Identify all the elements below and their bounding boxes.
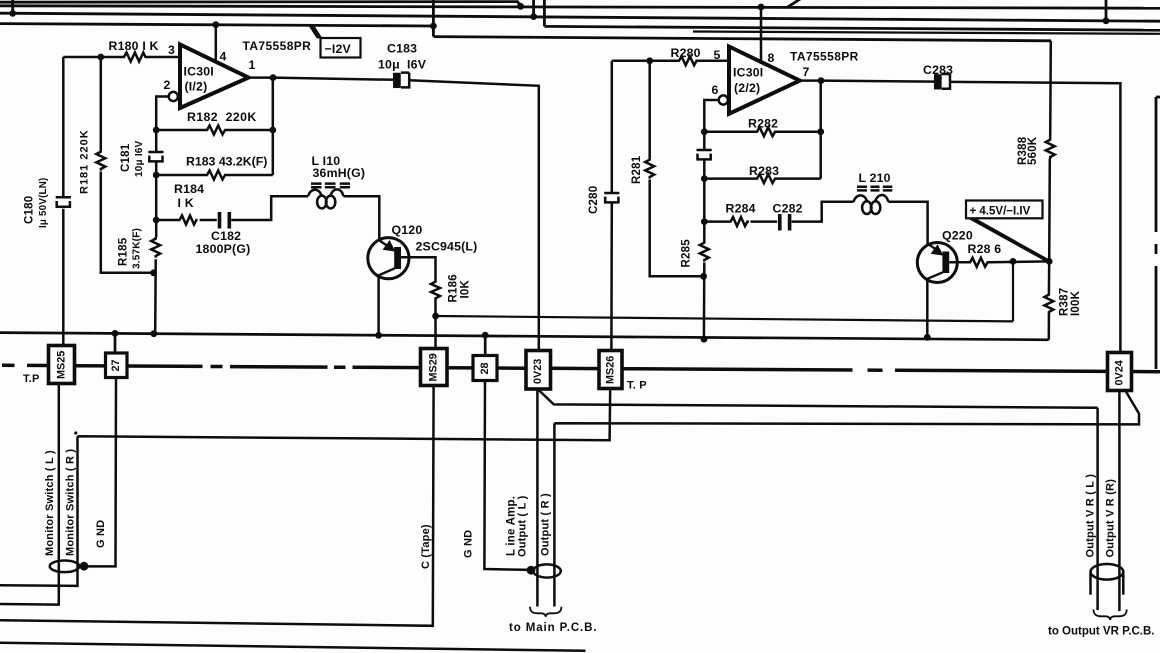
resistor R282 (755, 127, 777, 136)
wire R181 branch vertical (101, 57, 154, 273)
wire inverting chain vertical 2 (703, 132, 706, 340)
resistor R388 560K (1046, 138, 1055, 159)
wire -12V rail C (0, 24, 433, 26)
node rail Q120 (375, 332, 382, 339)
resistor R180 1K (122, 53, 147, 62)
node rail to R185 (150, 330, 157, 337)
node rail to box 28 (482, 332, 489, 339)
wire L210 to Q220 lead (888, 202, 927, 246)
wire supply rail A (0, 6, 1160, 8)
wire C280 branch vertical (610, 61, 613, 352)
wire R183 row (156, 174, 273, 177)
svg-text:(2/2): (2/2) (734, 81, 760, 95)
wire R282 row (704, 130, 820, 133)
node R280/R281 junction (646, 57, 653, 64)
wire supply rail B (0, 13, 1160, 21)
op-amp U2 IC301 (2/2) (729, 47, 800, 114)
svg-text:Output ( R ): Output ( R ) (540, 493, 552, 556)
brace under Output VR cable (1094, 610, 1127, 620)
resistor R186 10K (431, 280, 440, 300)
svg-text:Iμ 50V(LN): Iμ 50V(LN) (38, 178, 49, 228)
svg-text:6: 6 (712, 83, 719, 97)
svg-text:36mH(G): 36mH(G) (313, 166, 366, 180)
svg-text:28: 28 (479, 362, 491, 374)
svg-text:7: 7 (803, 65, 810, 79)
node R182 right (269, 127, 276, 134)
node R184 left (153, 217, 160, 224)
svg-text:G ND: G ND (95, 520, 107, 548)
resistor R284 (729, 217, 749, 226)
resistor R387 100K (1044, 293, 1053, 314)
wire R284 row (704, 220, 777, 223)
wire bias return line y316 (436, 261, 1013, 321)
wire feedback vertical from output (272, 78, 275, 175)
wire vertical at x=433 (432, 0, 435, 37)
wire stub V2 (543, 0, 546, 26)
node R282 left (701, 128, 708, 135)
speck near corner (74, 431, 77, 434)
node L1 stub on rail A (517, 3, 524, 10)
wire vertical right top to rail B (1105, 0, 1108, 21)
node R281/R285 join (700, 273, 707, 280)
resistor R280 (677, 56, 699, 65)
svg-text:to Main P.C.B.: to Main P.C.B. (509, 622, 597, 634)
pointer +4.5V wedge (968, 218, 1051, 263)
svg-text:10μ I6V: 10μ I6V (378, 58, 427, 72)
resistor R285 (700, 241, 709, 262)
svg-text:Q220: Q220 (942, 229, 973, 243)
wire L110 to Q120 collector lead (344, 196, 380, 241)
wire GND from box 27 to plug (88, 378, 116, 567)
wire pin 8 vertical (760, 7, 763, 64)
svg-text:IC30I: IC30I (184, 65, 214, 79)
svg-text:+ 4.5V/−I.IV: + 4.5V/−I.IV (970, 206, 1031, 218)
svg-text:MS29: MS29 (428, 353, 440, 381)
svg-text:C182: C182 (211, 229, 241, 243)
wire OV24 diagonal + line H2 to Output (R) (554, 391, 1139, 607)
connector MS26 (599, 351, 622, 389)
svg-text:8: 8 (768, 51, 775, 65)
svg-text:−I2V: −I2V (325, 42, 352, 56)
node pin4 on rail C (212, 21, 219, 28)
wire C280 top corner to R280 node (612, 60, 677, 63)
wire OV24 main down Output VR(R) (1118, 391, 1121, 612)
transistor Q120 2SC945(L) (368, 238, 409, 279)
capacitor C183 10u 16V (394, 73, 409, 88)
wire top rail L1 (0, 2, 521, 7)
wire 0V thin rail (0, 333, 1049, 340)
wire bottom long line (0, 643, 586, 651)
wire R186 to MS29 (434, 300, 437, 351)
wire right board edge dash-dot (1156, 97, 1160, 369)
wire R388 vertical from rail D (1049, 41, 1051, 262)
inductor L110 36mH(G) (308, 184, 350, 209)
svg-text:TA75558PR: TA75558PR (790, 50, 859, 64)
svg-text:C181: C181 (120, 143, 132, 172)
svg-text:1: 1 (249, 58, 256, 72)
wire Q120 emitter down to rail (377, 275, 380, 335)
capacitor C180 1u 50V(LN) (56, 197, 71, 207)
wire R184 row (156, 219, 217, 222)
resistor R183 43.2K(F) (205, 171, 228, 180)
wire stub V1 (532, 0, 535, 17)
svg-text:Output V R ( L ): Output V R ( L ) (1085, 474, 1097, 558)
wire stub left edge (11, 0, 14, 13)
svg-text:4: 4 (220, 50, 227, 64)
wire MS25 bottom Monitor Switch L (0, 384, 59, 605)
wire C(Tape) from MS29 (0, 386, 434, 626)
svg-text:3: 3 (168, 43, 175, 57)
node V1 on rail B (530, 13, 537, 20)
svg-text:Q120: Q120 (392, 223, 423, 237)
node rail C end (430, 23, 437, 30)
wire C182 up to L110 row (231, 196, 308, 220)
wire Q220 base to R286 (949, 261, 968, 264)
wire C283 to OV24 corner (950, 82, 1120, 353)
box -12V (308, 25, 323, 39)
svg-text:1800P(G): 1800P(G) (196, 242, 251, 256)
node right vertical on rail B (1103, 17, 1110, 24)
wire rail E2 (693, 32, 1160, 34)
wire inverting chain vertical (155, 130, 156, 335)
connector OV23 (526, 351, 551, 390)
wire R387 to rail corner (1048, 261, 1051, 339)
wire R283 row (704, 177, 820, 180)
svg-text:R280: R280 (671, 46, 701, 60)
node R387/R388/R286 (1046, 258, 1053, 265)
node R183 left (153, 172, 160, 179)
node rail Q220 (924, 334, 931, 341)
svg-text:I00K: I00K (1070, 290, 1082, 316)
svg-text:Monitor Switch ( L ): Monitor Switch ( L ) (44, 450, 56, 556)
svg-text:C283: C283 (923, 63, 953, 77)
node pin8 on rail A (758, 4, 765, 11)
resistor R184 1K (178, 216, 198, 225)
capacitor C281 (697, 150, 712, 159)
svg-text:C282: C282 (773, 202, 803, 216)
resistor R185 3.57K(F) (151, 237, 160, 258)
svg-text:2SC945(L): 2SC945(L) (416, 240, 478, 254)
svg-text:Output ( L ): Output ( L ) (517, 495, 529, 557)
node R186 bias tap (432, 313, 439, 320)
wire OV23 diagonal + line H1 to Output VR(L) (538, 389, 1098, 610)
wire pin 2 jog down (156, 97, 169, 132)
wire R182 feedback row (156, 129, 273, 132)
svg-text:T.P: T.P (23, 373, 40, 385)
svg-text:IC30I: IC30I (733, 66, 763, 80)
capacitor C181 10u 16V (148, 152, 163, 161)
connector MS29 (421, 349, 448, 386)
transistor Q220 (917, 243, 957, 283)
op-amp U1 IC301 (1/2) (180, 45, 249, 109)
wire R286 to node dots (990, 260, 1049, 263)
svg-text:R184: R184 (174, 182, 204, 196)
node plug 1 GND dot (80, 562, 89, 571)
node plug 2 GND dot (527, 566, 536, 575)
pin 6 inverting bubble (719, 95, 728, 104)
wire output pin 7 to C283 (800, 81, 936, 82)
node R284 left (701, 218, 708, 225)
capacitor C282 (780, 214, 790, 231)
wire C180 top corner to R180 node (63, 56, 122, 59)
svg-text:C180: C180 (24, 196, 36, 224)
svg-text:MS26: MS26 (605, 356, 617, 384)
svg-text:to Output VR P.C.B.: to Output VR P.C.B. (1048, 626, 1154, 638)
wire feedback vertical from output 2 (819, 81, 822, 179)
svg-text:C280: C280 (588, 186, 600, 214)
connector MS25 (49, 346, 75, 384)
wire thick PCB bus dash-dot segments (2, 365, 1160, 371)
wire GND from box 28 to plug 2 (484, 381, 531, 570)
node R282 right (817, 128, 824, 135)
resistor R281 (645, 158, 654, 179)
svg-text:5: 5 (714, 48, 721, 62)
node R180/R181/C180 junction (97, 54, 104, 61)
connector 28 (473, 356, 497, 381)
svg-text:R182 220K: R182 220K (187, 110, 257, 124)
node rail R285 (701, 336, 708, 343)
svg-text:10μ I6V: 10μ I6V (134, 140, 145, 177)
svg-text:R283: R283 (749, 164, 779, 178)
svg-text:I K: I K (178, 196, 194, 210)
wire rail to box 27 (114, 333, 117, 353)
svg-text:C183: C183 (387, 42, 417, 56)
wire C282 up to L210 row (792, 202, 854, 222)
svg-text:2: 2 (164, 78, 171, 92)
cable cylinder to Output VR PCB (1091, 564, 1124, 595)
plug ellipse OV23 cable (533, 564, 561, 577)
resistor R181 220K (96, 150, 105, 171)
svg-text:MS25: MS25 (56, 351, 68, 379)
wire pin 6 jog down (704, 100, 718, 133)
svg-text:Monitor Switch ( R ): Monitor Switch ( R ) (65, 449, 77, 556)
svg-text:TA75558PR: TA75558PR (243, 39, 312, 53)
node rail to box 27 (112, 330, 119, 337)
svg-text:R180 I K: R180 I K (109, 39, 159, 53)
capacitor C280 (604, 193, 619, 202)
connector OV24 (1108, 353, 1132, 391)
svg-text:(I/2): (I/2) (185, 80, 208, 94)
wire leader diagonal on rail A (787, 0, 800, 8)
wire rail E (544, 26, 1160, 30)
node output 2 (818, 77, 825, 84)
wire C183 to OV23 corner (409, 80, 539, 352)
node R181/R185 join (150, 269, 157, 276)
svg-text:R183 43.2K(F): R183 43.2K(F) (186, 155, 267, 169)
svg-text:R186: R186 (448, 274, 460, 302)
svg-text:G ND: G ND (463, 530, 475, 558)
svg-text:R282: R282 (748, 117, 778, 131)
svg-text:3.57K(F): 3.57K(F) (132, 228, 143, 269)
wire rail to box 28 (484, 335, 487, 355)
wire Q120 base to R186 (401, 257, 436, 280)
svg-text:27: 27 (110, 359, 122, 371)
wire Q220 lower lead to rail (926, 279, 929, 338)
box +4.5V/-1.1V (966, 201, 1043, 219)
resistor R283 (755, 174, 777, 183)
wire MS26 bottom to Monitor Switch R corner (0, 389, 610, 586)
wire pin 4 vertical (215, 25, 218, 63)
pin 2 inverting bubble (169, 92, 178, 101)
node R283 left (701, 175, 708, 182)
svg-text:R28 6: R28 6 (968, 242, 1002, 256)
wire R280 to pin 5 (699, 60, 729, 63)
svg-text:560K: 560K (1027, 136, 1039, 165)
svg-text:R387: R387 (1059, 288, 1071, 316)
capacitor C283 (935, 74, 950, 89)
node bias line top (1010, 258, 1017, 265)
svg-text:L 210: L 210 (859, 171, 891, 185)
node R182 left (153, 127, 160, 134)
brace under Main PCB cable (530, 607, 561, 617)
wire rail D (433, 37, 1051, 41)
connector 27 (106, 353, 128, 378)
wire C180 branch vertical (62, 57, 65, 348)
node output 1 (270, 74, 277, 81)
svg-text:0V24: 0V24 (1114, 360, 1126, 385)
wire OV23 main down Line Amp Output L (536, 389, 539, 607)
svg-text:R284: R284 (726, 202, 756, 216)
svg-text:R285: R285 (681, 239, 693, 268)
inductor L210 (854, 187, 893, 214)
svg-text:Output V R (R): Output V R (R) (1105, 479, 1117, 558)
plug ellipse MS25 cable (50, 561, 80, 573)
wire R180 to pin 3 (148, 56, 181, 59)
wire output pin 1 to C183 (249, 78, 395, 80)
svg-text:C (Tape): C (Tape) (420, 524, 432, 569)
svg-text:R281: R281 (631, 155, 643, 184)
svg-text:R181 220K: R181 220K (79, 129, 91, 194)
wire R281 branch vertical (650, 61, 704, 276)
svg-text:I0K: I0K (460, 280, 472, 299)
svg-text:T. P: T. P (627, 380, 647, 392)
svg-text:0V23: 0V23 (532, 359, 544, 384)
node left stub on rail B (9, 10, 16, 17)
svg-text:R185: R185 (118, 237, 130, 266)
resistor R182 220K (205, 126, 228, 135)
capacitor C182 1800P(G) (220, 212, 230, 229)
resistor R286 (968, 258, 990, 267)
